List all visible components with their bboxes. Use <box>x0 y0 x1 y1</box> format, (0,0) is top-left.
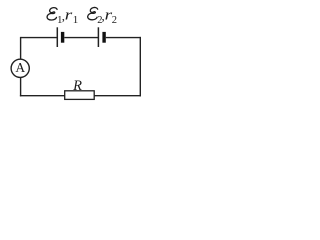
svg-text:R: R <box>72 78 82 94</box>
resistor R box <box>65 91 95 100</box>
label E1,r1 script E <box>47 8 57 20</box>
battery E1 short thick plate <box>61 32 64 43</box>
svg-text:A: A <box>15 60 25 75</box>
battery E2 long plate <box>97 27 99 47</box>
wire top-left to battery E1 <box>21 37 58 39</box>
battery E1 long plate <box>56 27 58 47</box>
wire right side <box>139 37 141 97</box>
ammeter A circle <box>11 59 29 77</box>
svg-text:r: r <box>65 6 73 23</box>
label E2,r2 script E <box>88 7 98 19</box>
battery E2 short thick plate <box>102 32 105 43</box>
wire battery E2 to top-right corner <box>106 37 141 39</box>
wire bottom right segment <box>94 95 141 97</box>
svg-text:1: 1 <box>73 14 79 26</box>
wire left top vertical <box>20 37 22 59</box>
wire left bottom vertical <box>20 77 22 96</box>
svg-text:2: 2 <box>112 15 117 26</box>
wire between batteries <box>64 37 98 39</box>
wire bottom left segment <box>20 95 65 97</box>
